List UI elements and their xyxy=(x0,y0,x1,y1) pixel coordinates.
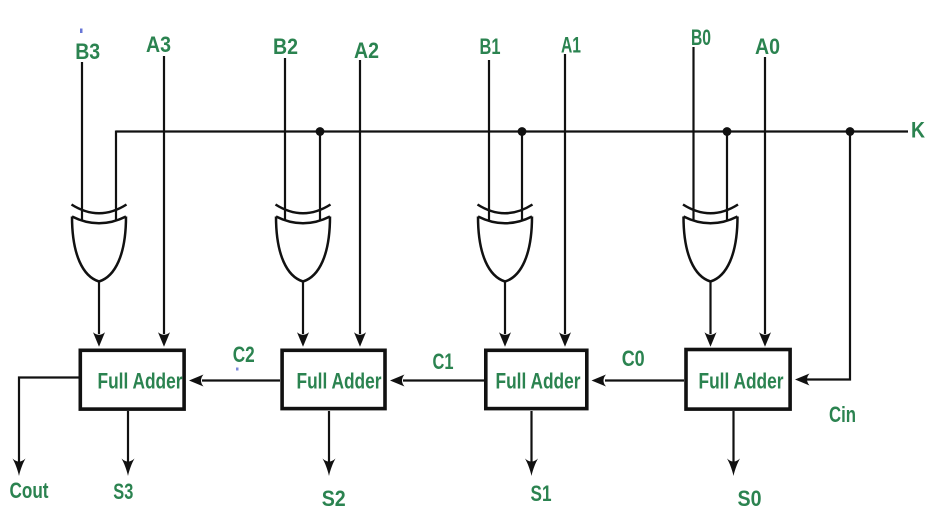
full adder FA0 box xyxy=(686,350,790,410)
xor gate X2 xyxy=(276,205,331,282)
wire A3 input xyxy=(158,56,170,347)
svg-text:A0: A0 xyxy=(755,34,780,59)
svg-text:Full Adder: Full Adder xyxy=(699,369,784,394)
junction dot at Cin drop xyxy=(846,127,855,136)
svg-text:S0: S0 xyxy=(738,486,762,511)
svg-text:S1: S1 xyxy=(531,481,552,506)
wire S1 output xyxy=(525,411,538,476)
full adder FA2 box xyxy=(282,350,385,408)
xor gate X4 xyxy=(683,205,738,282)
junction dot at XOR2 drop xyxy=(316,127,325,136)
svg-text:C2: C2 xyxy=(233,342,255,367)
wire S2 output xyxy=(323,411,336,476)
wire B3 input xyxy=(81,62,83,220)
wire K drop to XOR2 xyxy=(319,132,321,221)
svg-text:Full Adder: Full Adder xyxy=(496,369,581,394)
svg-text:A2: A2 xyxy=(354,38,379,63)
wire XOR1 output xyxy=(93,281,105,347)
junction dot at XOR4 drop xyxy=(723,127,732,136)
wire XOR3 output xyxy=(499,281,511,347)
svg-text:B0: B0 xyxy=(691,25,711,50)
svg-text:B2: B2 xyxy=(273,34,298,59)
svg-text:S3: S3 xyxy=(113,479,133,504)
wire B1 input xyxy=(488,60,490,220)
wire K drop to XOR1 xyxy=(115,131,117,221)
wire XOR4 output xyxy=(705,281,717,347)
svg-text:B3: B3 xyxy=(75,39,100,64)
svg-text:Full Adder: Full Adder xyxy=(297,369,382,394)
wire A1 input xyxy=(559,54,571,347)
wire B2 input xyxy=(284,58,286,220)
wire carry C0 from FA0 to FA1 xyxy=(592,375,685,387)
wire K drop to XOR4 xyxy=(726,132,728,221)
svg-text:A1: A1 xyxy=(561,33,581,58)
wire B0 input xyxy=(692,47,694,220)
artifact blue dash above B3 xyxy=(80,29,83,34)
wire S0 output xyxy=(727,411,740,476)
full adder FA3 box xyxy=(80,350,184,409)
wire S3 output xyxy=(122,411,135,476)
svg-text:A3: A3 xyxy=(146,32,171,57)
svg-text:Cout: Cout xyxy=(10,478,50,503)
wire carry C1 from FA1 to FA2 xyxy=(390,375,484,387)
svg-text:K: K xyxy=(911,118,925,143)
wire K drop to XOR3 xyxy=(521,132,523,221)
wire Cin drop from K bus xyxy=(795,132,850,386)
wire carry C2 from FA2 to FA3 xyxy=(189,375,280,387)
wire XOR2 output xyxy=(297,281,309,347)
svg-text:Cin: Cin xyxy=(829,402,856,427)
xor gate X3 xyxy=(478,205,533,282)
wire Cout from FA3 xyxy=(13,378,80,477)
svg-text:Full Adder: Full Adder xyxy=(98,369,183,394)
full adder FA1 box xyxy=(486,350,587,408)
xor gate X1 xyxy=(72,205,127,282)
wire A0 input xyxy=(759,57,771,347)
junction dot at XOR3 drop xyxy=(518,127,527,136)
wire K bus horizontal xyxy=(116,130,908,132)
artifact blue dot below C2 xyxy=(236,368,239,371)
wire A2 input xyxy=(354,60,366,347)
svg-text:S2: S2 xyxy=(322,486,346,511)
svg-text:C0: C0 xyxy=(622,346,645,371)
svg-text:C1: C1 xyxy=(433,349,454,374)
svg-text:B1: B1 xyxy=(480,34,501,59)
